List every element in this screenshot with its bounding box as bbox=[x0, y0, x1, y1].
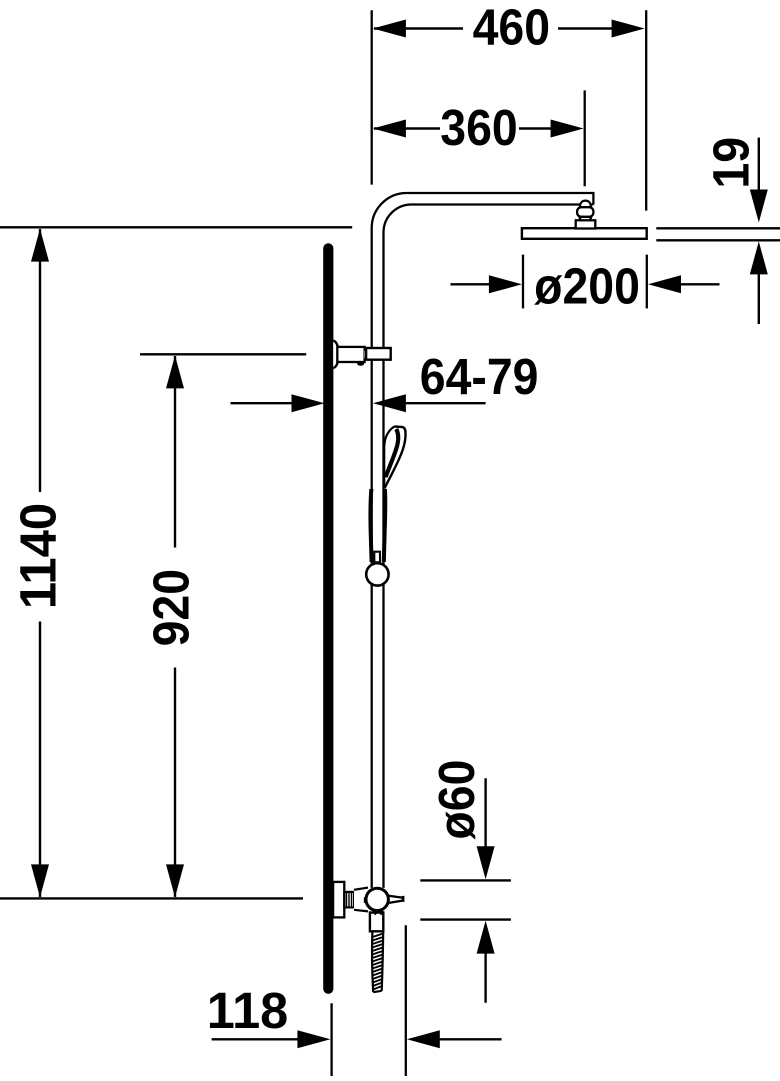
svg-text:19: 19 bbox=[704, 137, 760, 189]
svg-text:460: 460 bbox=[473, 0, 550, 56]
svg-text:ø60: ø60 bbox=[429, 760, 485, 840]
svg-text:920: 920 bbox=[144, 569, 200, 646]
svg-text:360: 360 bbox=[440, 100, 517, 156]
svg-text:64-79: 64-79 bbox=[420, 349, 539, 405]
svg-text:ø200: ø200 bbox=[534, 259, 640, 315]
svg-text:1140: 1140 bbox=[9, 503, 66, 609]
svg-text:118: 118 bbox=[207, 982, 288, 1039]
